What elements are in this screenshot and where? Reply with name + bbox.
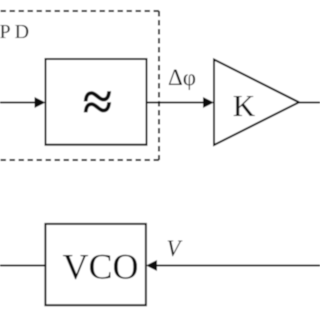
svg-text:K: K <box>233 88 256 123</box>
svg-text:Δφ: Δφ <box>168 65 196 90</box>
svg-text:≈: ≈ <box>83 72 113 132</box>
svg-text:VCO: VCO <box>62 247 138 287</box>
svg-text:PD: PD <box>0 21 33 43</box>
